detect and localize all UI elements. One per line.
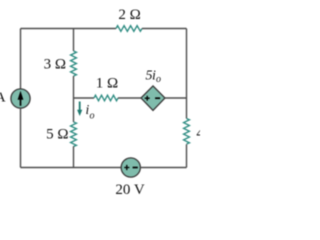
wire top-right segment — [142, 28, 187, 30]
node junction middle — [73, 98, 75, 122]
voltage source V1 20V — [121, 158, 140, 177]
label i_o — [86, 102, 95, 122]
resistor R4 1ohm zigzag — [94, 95, 118, 101]
wire right lower segment — [186, 144, 188, 167]
value label 4 ohm (clipped at right edge) — [196, 126, 218, 142]
value label 5 ohm — [46, 127, 68, 143]
svg-text:o: o — [90, 111, 95, 122]
resistor R5 4ohm zigzag — [184, 119, 190, 145]
current source I1 — [11, 89, 30, 108]
resistor R1 2ohm zigzag — [116, 26, 142, 32]
wire right upper segment — [186, 29, 188, 119]
wire bottom-left segment — [21, 167, 122, 169]
label 5io — [146, 69, 162, 86]
svg-text:2 Ω: 2 Ω — [118, 7, 140, 23]
value label 20 V — [115, 182, 144, 198]
wire center horizontal mid lead — [118, 97, 141, 99]
value label 1 ohm — [96, 76, 118, 92]
value label 3 ohm — [44, 57, 66, 73]
current arrow i_o — [77, 102, 82, 117]
wire left upper segment — [20, 29, 22, 90]
svg-text:20 V: 20 V — [115, 182, 144, 198]
wire middle branch lower segment — [73, 146, 75, 167]
value label 2 ohm — [118, 7, 140, 23]
resistor R3 5ohm zigzag — [71, 122, 77, 146]
svg-text:1 Ω: 1 Ω — [96, 76, 118, 92]
svg-text:5 Ω: 5 Ω — [46, 127, 68, 143]
wire middle branch mid segment — [73, 76, 75, 98]
value label 4 A (clipped at left edge) — [0, 91, 6, 106]
wire bottom-right segment — [140, 167, 186, 169]
svg-text:4 Ω: 4 Ω — [196, 126, 200, 142]
wire center horizontal left lead — [74, 97, 95, 99]
wire top-left segment — [21, 28, 117, 30]
svg-text:4 A: 4 A — [0, 91, 6, 106]
wire middle branch upper lead — [73, 29, 75, 52]
wire left lower segment — [20, 108, 22, 167]
svg-text:3 Ω: 3 Ω — [44, 57, 66, 73]
resistor R2 3ohm zigzag — [71, 51, 77, 76]
svg-text:o: o — [156, 74, 161, 85]
wire center horizontal right lead — [165, 97, 187, 99]
dependent source U1 5io diamond — [141, 86, 165, 111]
